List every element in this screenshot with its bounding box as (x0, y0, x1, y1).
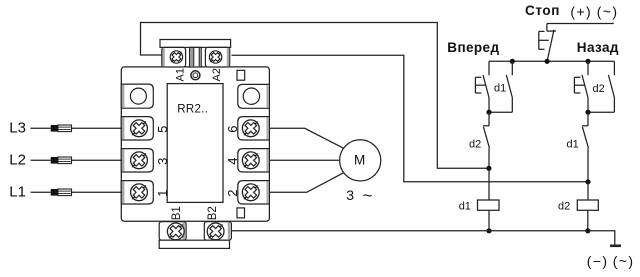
terminal 1 (121, 181, 153, 204)
mounting hole top-right (238, 84, 270, 108)
relay body RR2 (121, 67, 269, 221)
wire L3 (31, 127, 51, 129)
wire pin 6 to motor (269, 128, 344, 148)
svg-text:(~): (~) (597, 3, 619, 19)
label 3~ (346, 186, 372, 205)
svg-text:3: 3 (155, 158, 170, 165)
wire coil d2 to rail (587, 210, 589, 231)
node left connector (486, 110, 491, 115)
terminal cell A2 (205, 47, 229, 67)
terminal 4 (238, 149, 270, 172)
bottom rail (231, 231, 614, 246)
svg-text:3: 3 (346, 187, 354, 203)
svg-text:M: M (354, 153, 365, 168)
svg-text:5: 5 (155, 126, 170, 133)
svg-text:d1: d1 (494, 83, 506, 95)
supply wire top (547, 23, 614, 25)
terminal 6 (238, 117, 270, 140)
wire to coil d2 (587, 182, 589, 200)
svg-text:A2: A2 (211, 68, 223, 81)
svg-text:~: ~ (363, 186, 373, 205)
screw A1 (170, 51, 182, 63)
terminal 3 (121, 149, 153, 172)
wire pin 2 to motor (269, 173, 344, 193)
node coil d1 rail (486, 228, 491, 233)
wire L2 to pin 3 (71, 159, 122, 161)
mounting hole top-left (121, 84, 153, 108)
svg-text:L3: L3 (9, 119, 26, 136)
relay top block lip (160, 40, 231, 48)
connector left branch (489, 111, 512, 113)
svg-text:Вперед: Вперед (447, 40, 499, 55)
svg-text:6: 6 (225, 126, 240, 133)
center hole (191, 71, 200, 80)
terminal cell B2 (204, 222, 231, 241)
connector right branch (588, 111, 614, 113)
screw A2 (209, 51, 221, 63)
svg-text:B1: B1 (171, 206, 183, 220)
node coil d2 rail (585, 228, 590, 233)
wire from A2 to right branch junction (232, 55, 589, 182)
lug L3 (51, 125, 72, 132)
wire pin 4 to motor (269, 159, 340, 161)
wire L2 (31, 159, 51, 161)
svg-text:Назад: Назад (577, 40, 619, 55)
svg-text:d2: d2 (469, 138, 481, 150)
node right feed (585, 179, 590, 184)
terminal 2 (238, 181, 270, 204)
motor M (340, 140, 381, 181)
center slot (190, 47, 202, 67)
svg-text:A1: A1 (175, 68, 187, 81)
terminal cell A1 (162, 47, 186, 67)
svg-text:d2: d2 (558, 201, 570, 213)
wire L1 (31, 191, 51, 193)
node left feed (486, 166, 491, 171)
ground (610, 245, 621, 248)
svg-text:(~): (~) (613, 253, 635, 269)
node right connector (585, 110, 590, 115)
coil d1 (478, 200, 500, 210)
lug L1 (51, 189, 72, 196)
latch contact d1 (506, 61, 512, 112)
wire L3 to pin 5 (71, 127, 122, 129)
stop button NC (539, 24, 556, 62)
NC contact d2 (483, 112, 490, 168)
svg-text:4: 4 (225, 158, 240, 165)
inner rect RR2 (167, 84, 223, 203)
forward button NO (475, 61, 489, 112)
relay bottom lip (159, 240, 229, 248)
node rail-stop (545, 59, 550, 64)
terminal 5 (121, 117, 153, 140)
wire from A1 up over top to left branch junction (141, 23, 489, 169)
latch contact d2 (608, 61, 614, 112)
indicator square top-right (237, 70, 245, 80)
svg-text:L1: L1 (9, 183, 26, 200)
control rail (489, 60, 614, 62)
svg-text:d2: d2 (593, 83, 605, 95)
svg-text:d1: d1 (567, 138, 579, 150)
svg-text:(+): (+) (570, 3, 592, 19)
backward button NO (574, 61, 588, 112)
wire coil d1 to rail (488, 210, 490, 231)
NC contact d1 (582, 112, 589, 182)
coil d2 (577, 200, 598, 210)
indicator square bottom-right (237, 208, 245, 218)
svg-text:2: 2 (225, 190, 240, 197)
wire L1 to pin 1 (71, 191, 122, 193)
svg-text:Стоп: Стоп (525, 3, 560, 18)
wire to coil d1 (488, 168, 490, 200)
lug L2 (51, 157, 72, 164)
svg-text:L2: L2 (9, 151, 26, 168)
svg-text:1: 1 (155, 190, 170, 197)
svg-text:(−): (−) (587, 253, 609, 269)
svg-text:B2: B2 (207, 206, 219, 220)
node rail-latch1 (510, 59, 515, 64)
svg-text:RR2..: RR2.. (177, 104, 208, 116)
terminal cell B1 (159, 222, 186, 241)
svg-text:d1: d1 (459, 201, 471, 213)
node rail-button2 (585, 59, 590, 64)
